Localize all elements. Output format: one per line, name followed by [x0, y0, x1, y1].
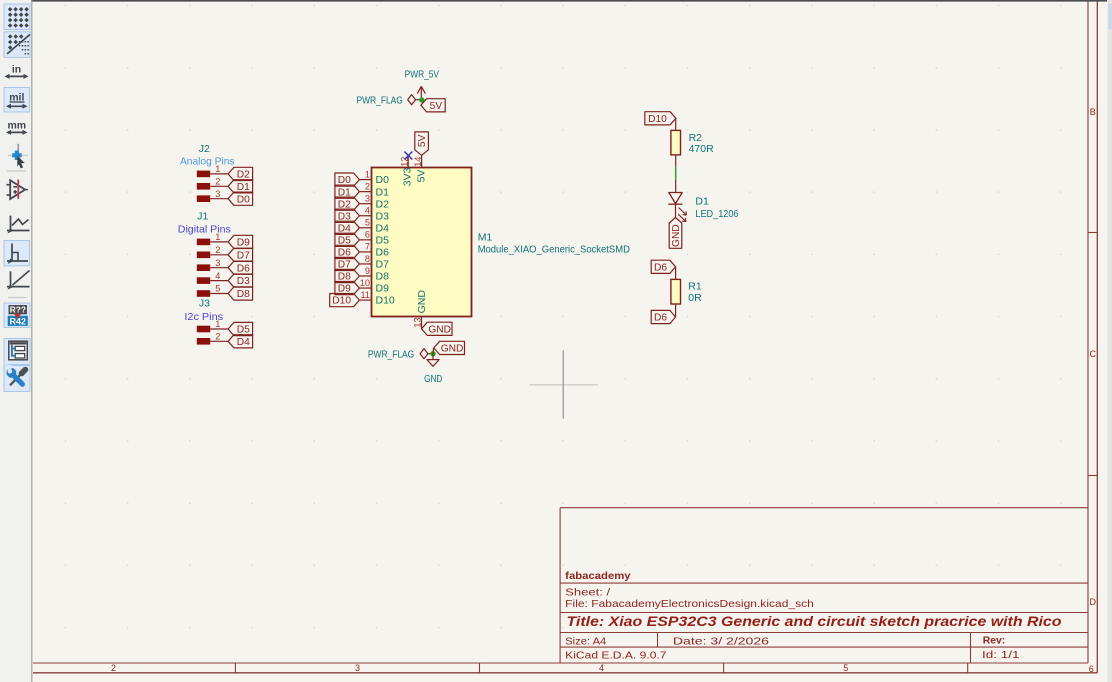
svg-text:5: 5: [365, 218, 370, 228]
power flag PWR_FLAG (bottom) symbol: [420, 349, 428, 359]
svg-text:LED_1206: LED_1206: [695, 208, 738, 220]
global label GND below LED D1 (vertical): [669, 218, 682, 249]
global label D10 (top of R2): [645, 112, 676, 125]
toolbar icon: hierarchy navigator (active): [4, 339, 30, 365]
editor crosshair vertical: [562, 350, 564, 419]
svg-text:D10: D10: [332, 296, 351, 307]
svg-text:GND: GND: [424, 374, 442, 385]
connector J1 pin 5 wire to label: [210, 293, 228, 295]
global label D0 on module M1 pin 1: [335, 173, 360, 186]
junction at 5V node: [419, 97, 424, 102]
connector J3 pin 1 pad: [197, 326, 210, 333]
svg-text:J2: J2: [199, 143, 210, 155]
toolbar icon: tools/preferences (active): [4, 366, 30, 392]
svg-text:Analog Pins: Analog Pins: [180, 155, 235, 167]
svg-text:D4: D4: [237, 337, 250, 348]
connector J1 pin 3 pad: [197, 264, 210, 271]
module M1 pin 5 line: [359, 227, 371, 229]
resistor R1 body: [671, 279, 681, 304]
connector J1 pin 2 pad: [197, 252, 210, 259]
module M1 pin 8 line: [359, 263, 371, 265]
svg-text:3: 3: [215, 258, 220, 268]
svg-text:2: 2: [365, 181, 370, 191]
frame column tick x=723.6: [723, 663, 725, 673]
svg-text:Size: A4: Size: A4: [565, 636, 607, 647]
svg-text:GND: GND: [428, 324, 451, 335]
svg-text:Id: 1/1: Id: 1/1: [982, 650, 1020, 661]
module M1 pin 2 line: [359, 191, 371, 193]
global label 5V at power flag node: [421, 99, 445, 112]
svg-text:5: 5: [843, 663, 848, 673]
svg-text:B: B: [1090, 107, 1096, 117]
global label D7 on J1 pin 2: [228, 248, 253, 261]
svg-text:3V3: 3V3: [401, 167, 413, 186]
wire D10 label to R2 pin 1: [675, 118, 677, 130]
svg-text:3: 3: [355, 663, 360, 673]
svg-text:4: 4: [599, 663, 604, 673]
svg-text:7: 7: [365, 242, 370, 252]
toolbar icon: units mils (active): [4, 88, 30, 113]
svg-text:9: 9: [365, 266, 370, 276]
connector J1 pin 5 pad: [197, 290, 210, 297]
frame row tick B/C: [1088, 232, 1097, 234]
svg-text:D1: D1: [695, 196, 709, 208]
frame column tick x=235.4: [234, 663, 236, 673]
svg-text:1: 1: [215, 232, 220, 242]
svg-text:D5: D5: [376, 234, 390, 246]
no-connect cross on module M1 pin 12: [404, 152, 412, 160]
toolbar icon: draw wires 90 degrees (active): [4, 241, 30, 266]
frame column tick x=967.7: [967, 663, 969, 673]
svg-text:D3: D3: [237, 276, 250, 287]
svg-text:PWR_FLAG: PWR_FLAG: [368, 349, 414, 360]
right scrollbar thumb: [1109, 4, 1112, 29]
frame row tick C/D: [1088, 475, 1097, 477]
sheet frame right inner line: [1087, 2, 1089, 664]
toolbar icon: show hidden pins (op-amp): [7, 184, 11, 186]
svg-text:D9: D9: [376, 283, 390, 295]
connector J1 pin 1 pad: [197, 239, 210, 246]
toolbar icon: annotate symbols (active): [4, 303, 30, 327]
connector J2 pin 2 pad: [197, 183, 210, 190]
svg-text:5: 5: [215, 284, 220, 294]
svg-text:fabacademy: fabacademy: [565, 571, 631, 582]
connector J1 pin 1 wire to label: [210, 241, 228, 243]
svg-text:D6: D6: [654, 262, 667, 273]
svg-text:D10: D10: [648, 114, 667, 125]
title block border and dividers: [560, 507, 1088, 509]
svg-text:12: 12: [400, 157, 410, 167]
module M1 pin 11 line: [359, 299, 371, 301]
connector J2 pin 2 wire to label: [210, 185, 228, 187]
global label D4 on module M1 pin 5: [335, 221, 360, 234]
svg-text:D0: D0: [376, 174, 390, 186]
svg-text:D6: D6: [654, 313, 667, 324]
svg-text:D3: D3: [376, 210, 390, 222]
module M1 pin 1 line: [359, 179, 371, 181]
connector J1 pin 2 wire to label: [210, 254, 228, 256]
LED D1 pin 2 line: [675, 180, 677, 193]
LED D1 pin 1 line to GND: [675, 204, 677, 217]
toolbar icon: show grid (active): [4, 4, 30, 30]
power symbol 5V arrow: [420, 87, 422, 100]
toolbar icon: grid overrides (active): [4, 32, 30, 58]
wire (selected, green) between R2 and D1: [675, 167, 677, 180]
global label D6 on module M1 pin 7: [335, 245, 360, 258]
svg-text:2: 2: [111, 663, 116, 673]
svg-text:R1: R1: [688, 281, 702, 293]
svg-text:10: 10: [360, 278, 370, 288]
svg-text:D1: D1: [376, 186, 390, 198]
top window separator line: [31, 0, 1107, 2]
frame column tick x=479.5: [479, 663, 481, 673]
svg-text:GND: GND: [671, 224, 682, 247]
svg-text:D8: D8: [237, 289, 250, 300]
power symbol GND triangle: [432, 354, 434, 360]
resistor R2 body: [671, 130, 681, 155]
svg-text:R??: R??: [10, 305, 26, 315]
connector J2 pin 1 wire to label: [210, 173, 228, 175]
global label 5V above module M1 pin 14: [415, 132, 429, 155]
svg-text:D7: D7: [237, 250, 250, 261]
svg-text:8: 8: [365, 254, 370, 264]
editor crosshair horizontal: [529, 384, 598, 386]
module M1 pin 4 line: [359, 215, 371, 217]
svg-text:5V: 5V: [417, 134, 428, 147]
left toolbar background: [0, 0, 31, 682]
global label D6 (bottom of R1): [651, 310, 675, 323]
svg-text:mm: mm: [7, 120, 26, 132]
global label D8 on J1 pin 5: [228, 287, 253, 300]
svg-text:in: in: [12, 64, 21, 76]
svg-text:Title: Xiao ESP32C3 Generic an: Title: Xiao ESP32C3 Generic and circuit …: [567, 613, 1062, 629]
svg-text:D0: D0: [237, 194, 250, 205]
wire D6 label to R1 pin 1: [675, 267, 677, 280]
wire R1 pin 2 to D6 label: [675, 304, 677, 317]
toolbar icon: draw wires 45 degrees: [10, 271, 12, 287]
module M1 pin 14 (5V) line: [421, 155, 423, 167]
svg-text:3: 3: [215, 189, 220, 199]
svg-text:13: 13: [412, 317, 422, 327]
connector J2 pin 3 pad: [197, 195, 210, 202]
svg-text:D6: D6: [237, 263, 250, 274]
svg-text:D1: D1: [237, 182, 250, 193]
svg-text:D8: D8: [376, 271, 390, 283]
global label D7 on module M1 pin 8: [335, 257, 360, 270]
global label D2 on module M1 pin 3: [335, 197, 360, 210]
svg-text:2: 2: [215, 177, 220, 187]
svg-text:2: 2: [215, 332, 220, 342]
connector J3 pin 1 wire to label: [210, 328, 228, 330]
svg-text:D9: D9: [237, 238, 250, 249]
svg-text:5V: 5V: [430, 101, 443, 112]
global label D8 on module M1 pin 9: [335, 269, 360, 282]
short wire from GND junction to label: [432, 348, 434, 354]
svg-text:4: 4: [365, 206, 370, 216]
module M1 pin 9 line: [359, 275, 371, 277]
global label D5 on J3 pin 1: [228, 322, 253, 335]
global label D10 on module M1 pin 11: [330, 294, 360, 307]
toolbar separator: [8, 297, 26, 299]
svg-text:D7: D7: [376, 259, 390, 271]
svg-text:D6: D6: [376, 247, 390, 259]
LED D1 emission arrows: [679, 208, 687, 216]
global label D9 on module M1 pin 10: [335, 281, 360, 294]
svg-text:2: 2: [215, 245, 220, 255]
svg-text:D2: D2: [237, 170, 250, 181]
svg-text:File: FabacademyElectronicsDes: File: FabacademyElectronicsDesign.kicad_…: [565, 599, 814, 610]
module M1 pin 13 (GND) line: [421, 317, 423, 329]
global label D6 (top of R1): [651, 260, 675, 273]
svg-text:J1: J1: [197, 211, 208, 223]
global label GND on module M1 pin 13: [422, 322, 453, 335]
global label D5 on module M1 pin 6: [335, 233, 360, 246]
svg-text:Rev:: Rev:: [983, 636, 1005, 647]
svg-text:J3: J3: [199, 298, 210, 310]
svg-text:PWR_FLAG: PWR_FLAG: [357, 95, 403, 106]
svg-text:D10: D10: [376, 295, 395, 307]
svg-text:6: 6: [365, 230, 370, 240]
module M1 pin 10 line: [359, 287, 371, 289]
svg-text:1: 1: [365, 169, 370, 179]
connector J1 pin 4 wire to label: [210, 280, 228, 282]
svg-text:KiCad E.D.A. 9.0.7: KiCad E.D.A. 9.0.7: [565, 650, 667, 661]
global label D1 on module M1 pin 2: [335, 185, 360, 198]
sheet page bottom border: [33, 672, 1097, 674]
global label D3 on J1 pin 4: [228, 274, 253, 287]
LED D1 triangle: [669, 193, 682, 204]
svg-text:D: D: [1090, 597, 1097, 607]
global label D9 on J1 pin 1: [228, 235, 253, 248]
svg-text:1: 1: [215, 319, 220, 329]
global label D0 on J2 pin 3: [228, 192, 253, 205]
module M1 pin 3 line: [359, 203, 371, 205]
module M1 pin 7 line: [359, 251, 371, 253]
right scrollbar track: [1108, 0, 1112, 682]
svg-text:5V: 5V: [416, 170, 428, 183]
resistor R2 pin 2 line: [675, 155, 677, 167]
svg-text:14: 14: [413, 157, 423, 167]
global label GND at power flag node: [434, 341, 465, 354]
svg-text:Module_XIAO_Generic_SocketSMD: Module_XIAO_Generic_SocketSMD: [478, 243, 631, 255]
svg-text:1: 1: [215, 164, 220, 174]
global label D1 on J2 pin 2: [228, 180, 253, 193]
svg-text:M1: M1: [478, 232, 493, 244]
LED D1 cathode bar: [668, 203, 682, 205]
connector J3 pin 2 wire to label: [210, 340, 228, 342]
toolbar icon: draw wires at any angle: [10, 216, 12, 231]
svg-text:4: 4: [215, 271, 220, 281]
connector J1 pin 4 pad: [197, 277, 210, 284]
global label D4 on J3 pin 2: [228, 335, 253, 348]
sheet frame bottom inner line: [33, 662, 1088, 664]
svg-text:D5: D5: [237, 325, 250, 336]
toolbar icon: full-window crosshair cursor: [17, 144, 19, 151]
svg-text:GND: GND: [416, 290, 428, 314]
connector J1 pin 3 wire to label: [210, 267, 228, 269]
global label D6 on J1 pin 3: [228, 261, 253, 274]
power flag PWR_FLAG (top) symbol: [408, 95, 416, 105]
svg-text:0R: 0R: [688, 292, 702, 304]
svg-text:3: 3: [365, 194, 370, 204]
svg-text:D4: D4: [376, 222, 390, 234]
svg-text:Digital Pins: Digital Pins: [178, 223, 231, 235]
module M1 pin 12 (3V3) line: [407, 155, 409, 167]
global label D2 on J2 pin 1: [228, 167, 253, 180]
svg-text:PWR_5V: PWR_5V: [405, 70, 439, 81]
svg-text:11: 11: [360, 290, 370, 300]
toolbar separator: [7, 170, 26, 172]
svg-text:Date: 3/ 2/2026: Date: 3/ 2/2026: [673, 636, 770, 647]
svg-text:C: C: [1090, 349, 1097, 359]
sheet page right border: [1096, 2, 1098, 673]
module M1 pin 6 line: [359, 239, 371, 241]
svg-text:Sheet: /: Sheet: /: [565, 587, 610, 598]
junction at GND node: [430, 351, 435, 356]
svg-text:470R: 470R: [689, 143, 715, 155]
svg-text:D2: D2: [376, 198, 390, 210]
connector J2 pin 1 pad: [197, 171, 210, 178]
global label D3 on module M1 pin 4: [335, 209, 360, 222]
svg-text:GND: GND: [441, 344, 464, 355]
connector J3 pin 2 pad: [197, 338, 210, 345]
svg-text:6: 6: [1089, 664, 1094, 674]
connector J2 pin 3 wire to label: [210, 198, 228, 200]
module M1 body: [372, 168, 472, 317]
